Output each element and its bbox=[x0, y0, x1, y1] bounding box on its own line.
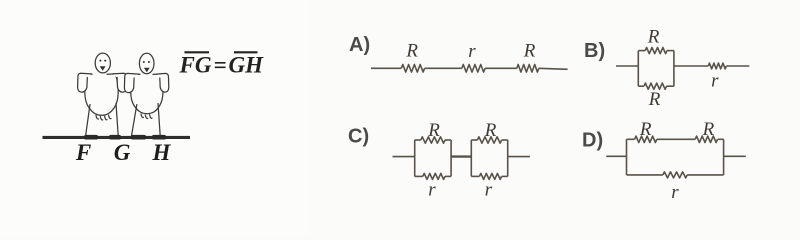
wire bbox=[508, 156, 530, 158]
bird 1 left wing bbox=[78, 73, 92, 92]
bird 2 right shoulder bbox=[153, 73, 165, 76]
box 2 bottom branch bbox=[502, 175, 508, 177]
bird 1 right wing bbox=[113, 73, 127, 92]
bird 2 tail feathers bbox=[141, 114, 143, 118]
bird 2 eyes bbox=[143, 61, 150, 63]
resistor R (A left) bbox=[401, 65, 424, 73]
resistor r (A middle) bbox=[462, 65, 485, 73]
resistor r (C box1 bottom) bbox=[423, 173, 445, 179]
wire bbox=[674, 65, 708, 67]
box 1 bottom branch bbox=[445, 175, 451, 177]
box 2 top branch bbox=[502, 139, 508, 141]
box 1 right vertical bbox=[450, 140, 452, 176]
wire bbox=[539, 68, 568, 69]
box right vertical bbox=[723, 139, 725, 175]
svg-text:r: r bbox=[671, 182, 679, 203]
top branch wire bbox=[667, 50, 674, 52]
svg-text:F: F bbox=[75, 140, 91, 165]
resistor R (D top right) bbox=[695, 136, 717, 142]
wire bbox=[371, 67, 401, 69]
resistor r (B series) bbox=[708, 63, 726, 69]
bottom branch wire bbox=[687, 174, 723, 176]
bird 1 eyes bbox=[99, 60, 106, 62]
box 2 right vertical bbox=[507, 140, 509, 176]
top branch wire bbox=[657, 138, 695, 140]
top branch wire bbox=[718, 138, 724, 140]
svg-text:=: = bbox=[214, 53, 227, 78]
box 1 top branch bbox=[415, 139, 421, 141]
bird 2 left shoulder bbox=[130, 73, 141, 76]
box left vertical bbox=[626, 139, 628, 175]
bird 2 right wing bbox=[157, 73, 169, 92]
svg-text:R: R bbox=[639, 119, 652, 140]
parallel box left vertical bbox=[637, 51, 639, 87]
bird feet on wire bbox=[84, 135, 166, 140]
bird 1 beak bbox=[100, 66, 106, 70]
svg-text:C): C) bbox=[348, 126, 369, 148]
svg-text:r: r bbox=[485, 180, 493, 201]
svg-text:R: R bbox=[702, 119, 715, 140]
link wire bbox=[451, 155, 471, 157]
box 1 top branch bbox=[445, 139, 451, 141]
svg-text:A): A) bbox=[349, 34, 370, 56]
parallel box right vertical bbox=[673, 51, 675, 87]
svg-text:R: R bbox=[405, 41, 418, 62]
box 2 left vertical bbox=[470, 140, 472, 176]
wire bbox=[606, 155, 626, 157]
svg-text:G: G bbox=[114, 140, 131, 165]
resistor R (D top left) bbox=[635, 136, 657, 142]
resistor R (B bottom) bbox=[644, 83, 667, 89]
perch wire bbox=[43, 136, 191, 139]
wire bbox=[393, 156, 415, 158]
svg-text:D): D) bbox=[582, 130, 603, 152]
bird 2 beak bbox=[144, 68, 150, 72]
bird 2 head bbox=[139, 53, 154, 73]
svg-text:H: H bbox=[152, 140, 172, 165]
svg-text:R: R bbox=[484, 120, 497, 141]
wire bbox=[485, 67, 517, 69]
resistor r (C box2 bottom) bbox=[479, 173, 501, 179]
box 2 bottom branch bbox=[471, 175, 479, 177]
svg-text:B): B) bbox=[584, 40, 605, 62]
top branch wire bbox=[627, 138, 635, 140]
bird 2 legs bbox=[132, 105, 137, 136]
wire bbox=[425, 67, 462, 69]
svg-text:r: r bbox=[428, 180, 436, 201]
bird 1 right shoulder bbox=[107, 73, 121, 76]
bird 1 tail feathers bbox=[96, 116, 98, 120]
top branch wire bbox=[638, 50, 645, 52]
resistor R (C box1 top) bbox=[421, 137, 445, 143]
svg-text:GH: GH bbox=[229, 53, 265, 78]
bird 1 body bbox=[85, 76, 118, 115]
box 2 top branch bbox=[471, 139, 477, 141]
svg-text:r: r bbox=[711, 71, 719, 92]
svg-text:R: R bbox=[523, 41, 536, 62]
bird 1 left shoulder bbox=[81, 73, 93, 76]
svg-text:R: R bbox=[427, 120, 440, 141]
bird 2 body bbox=[131, 76, 163, 114]
svg-text:r: r bbox=[468, 41, 476, 62]
wire bbox=[726, 65, 749, 67]
bottom branch wire bbox=[627, 174, 663, 176]
bird 1 legs bbox=[86, 105, 90, 136]
box 1 bottom branch bbox=[415, 175, 423, 177]
svg-text:R: R bbox=[647, 27, 660, 48]
svg-text:FG: FG bbox=[179, 53, 212, 78]
bottom branch wire bbox=[638, 85, 644, 87]
bottom branch wire bbox=[667, 85, 674, 87]
resistor r (D bottom) bbox=[663, 172, 687, 178]
wire bbox=[724, 155, 746, 157]
bird 2 left wing bbox=[124, 73, 139, 92]
resistor R (C box2 top) bbox=[477, 137, 501, 143]
resistor R (B top) bbox=[645, 48, 667, 54]
bird 1 head bbox=[95, 53, 110, 73]
svg-text:R: R bbox=[648, 89, 661, 110]
box 1 left vertical bbox=[414, 140, 416, 176]
resistor R (A right) bbox=[517, 65, 539, 73]
wire bbox=[616, 65, 638, 67]
